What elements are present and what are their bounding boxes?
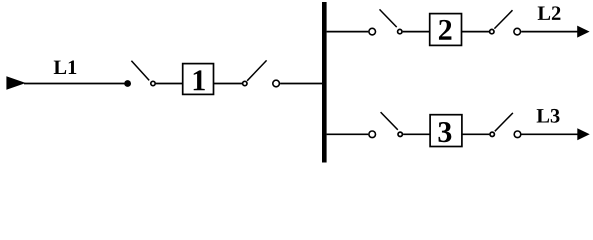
source arrow L1 <box>6 76 25 89</box>
terminal node feeder 2 <box>369 28 376 35</box>
wire breaker 2 to S4 <box>462 31 490 33</box>
node junction dot <box>124 80 131 87</box>
disconnector S1 hinge <box>151 81 155 85</box>
wire busbar to feeder-2 terminal <box>327 31 369 33</box>
terminal node feeder 3 <box>369 131 376 138</box>
disconnector S4 blade <box>494 10 512 28</box>
disconnector S3 hinge <box>398 29 402 33</box>
disconnector S6 hinge <box>490 132 494 136</box>
wire busbar to feeder-3 terminal <box>327 133 369 135</box>
disconnector S1 blade <box>131 61 149 81</box>
disconnector S5 blade <box>381 112 398 130</box>
terminal node feeder 2 load side <box>514 28 521 35</box>
wire breaker 3 to S6 <box>462 133 489 135</box>
wire to load arrow L3 <box>522 133 579 135</box>
disconnector S5 hinge <box>398 132 402 136</box>
breaker box 3 <box>430 115 462 147</box>
wire to load arrow L2 <box>521 31 578 33</box>
disconnector S3 blade <box>380 9 397 27</box>
label 3 <box>438 122 451 142</box>
terminal node feeder 3 load side <box>514 131 521 138</box>
label L2 <box>538 6 561 20</box>
label L3 <box>537 109 560 123</box>
label 2 <box>439 20 451 40</box>
wire S1 to breaker 1 <box>156 83 183 85</box>
breaker box 2 <box>430 14 462 46</box>
breaker box 1 <box>183 64 214 95</box>
wire terminal to busbar <box>280 83 322 85</box>
disconnector S2 hinge <box>243 81 247 85</box>
label L1 <box>54 60 77 74</box>
terminal node at busbar side <box>273 80 280 87</box>
load arrow L2 <box>577 26 589 38</box>
disconnector S4 hinge <box>490 29 494 33</box>
wire breaker 1 to S2 <box>214 83 243 85</box>
busbar <box>322 2 327 163</box>
wire S5 to breaker 3 <box>403 133 430 135</box>
wire incoming feeder <box>24 83 125 85</box>
load arrow L3 <box>577 128 589 140</box>
disconnector S6 blade <box>495 113 513 131</box>
label 1 <box>194 70 205 90</box>
disconnector S2 blade <box>247 60 267 80</box>
wire S3 to breaker 2 <box>403 31 430 33</box>
